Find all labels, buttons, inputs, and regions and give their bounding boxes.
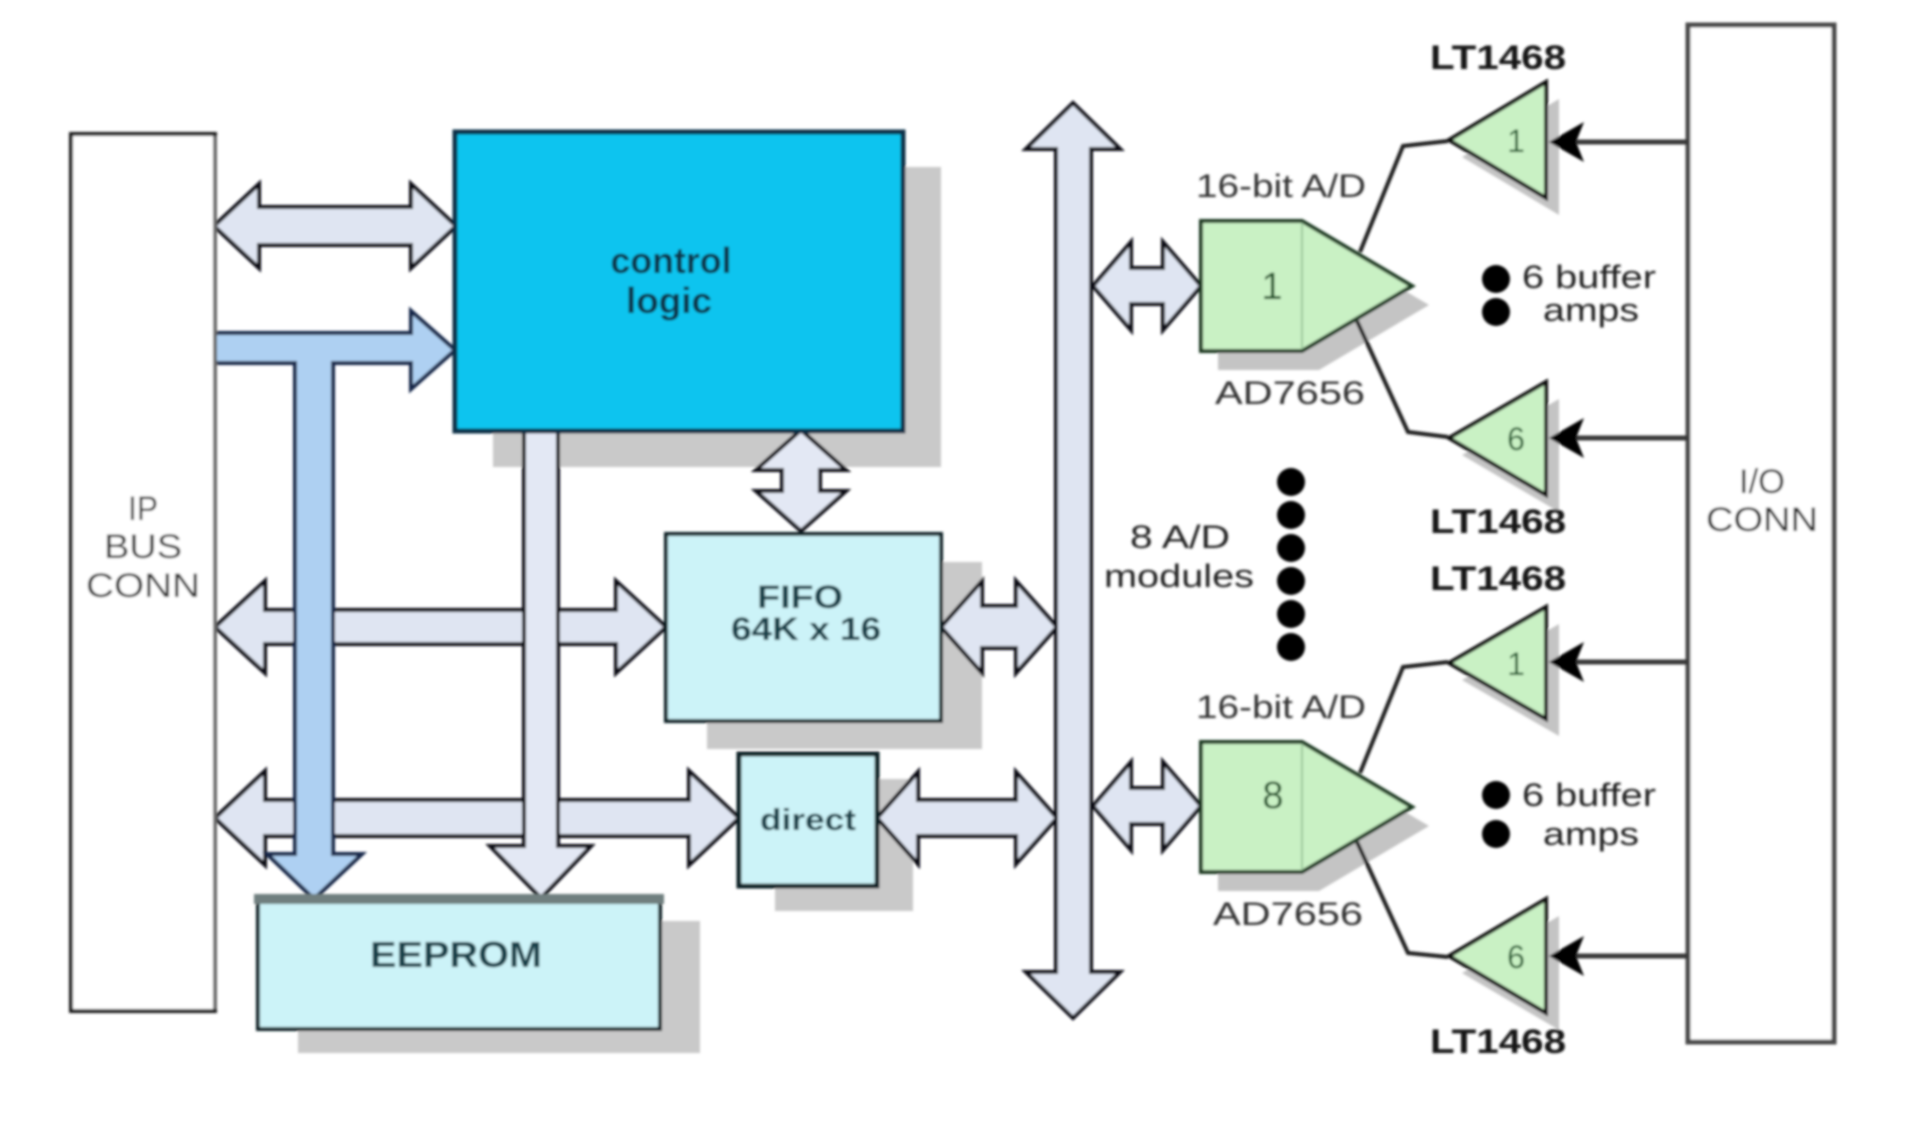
wire: I/O CONN input to buffer amp 6 bottom [1549,936,1688,976]
svg-text:CONN: CONN [86,567,200,605]
bus arrow: direct register to A/D data bus (bidirectional) [877,772,1057,864]
svg-text:LT1468: LT1468 [1430,39,1566,77]
svg-text:modules: modules [1104,558,1254,594]
shadow of buffer amp 1 (top) [1462,99,1559,215]
svg-text:LT1468: LT1468 [1430,503,1566,541]
svg-text:IP: IP [128,490,158,528]
svg-text:16-bit A/D: 16-bit A/D [1196,168,1366,204]
IP BUS CONN connector block [71,134,215,1011]
svg-text:8 A/D: 8 A/D [1130,519,1230,555]
shadow of FIFO block [707,562,982,749]
shadow of control logic block [493,167,941,467]
svg-text:AD7656: AD7656 [1213,896,1363,932]
svg-text:LT1468: LT1468 [1430,1023,1566,1061]
A/D module 1 (16-bit A/D, AD7656) [1201,221,1412,351]
svg-text:EEPROM: EEPROM [370,934,542,975]
A/D module 8 (16-bit A/D, AD7656) [1201,742,1412,872]
svg-text:BUS: BUS [104,528,182,566]
bus arrow: FIFO to A/D data bus (bidirectional) [941,581,1057,673]
shadow of A/D module 8 [1218,761,1429,891]
svg-text:8: 8 [1262,775,1283,817]
label 6 buffer amps (lower) with bullets [1482,777,1656,852]
FIFO 64K x 16 block [666,534,941,721]
buffer amp 6 (bottom, LT1468) [1449,899,1546,1013]
svg-text:6 buffer: 6 buffer [1522,259,1656,295]
svg-text:CONN: CONN [1706,501,1818,539]
buffer amp 1 (top, LT1468) [1449,82,1546,198]
svg-text:I/O: I/O [1739,463,1785,501]
bus arrow: IP bus to direct register (bidirectional) [215,771,739,865]
arrow: control logic down to EEPROM [490,431,591,898]
arrow: control logic to FIFO (bidirectional) [756,430,846,531]
svg-text:64K x 16: 64K x 16 [731,611,881,647]
wire: I/O CONN input to buffer amp 1 top [1549,122,1688,162]
wire: I/O CONN input to buffer amp 6 upper [1549,418,1688,458]
blue write bus: IP bus to control logic and down to EEPROM [215,311,455,899]
wire: A/D module 8 output to buffer amp 1 [1360,662,1448,773]
wire: A/D module 1 output to buffer amp 6 [1357,321,1448,437]
svg-text:6: 6 [1507,421,1525,457]
svg-text:6 buffer: 6 buffer [1522,777,1656,813]
buffer amp 6 (upper, LT1468) [1449,382,1546,495]
wire: A/D module 1 output to buffer amp 1 [1360,141,1448,252]
shadow of A/D module 1 [1218,240,1429,370]
svg-text:1: 1 [1507,123,1525,159]
svg-text:logic: logic [626,280,712,321]
wire: I/O CONN input to buffer amp 1 lower [1549,642,1688,682]
direct register block [739,754,877,886]
I/O CONN connector block [1688,25,1834,1042]
svg-text:1: 1 [1507,646,1525,682]
control logic block [455,132,903,431]
wire: A/D module 8 output to buffer amp 6 [1357,842,1448,957]
svg-text:direct: direct [760,802,856,837]
bus arrow: IP bus to control logic (bidirectional) [214,184,456,268]
svg-text:FIFO: FIFO [757,579,843,615]
shadow of buffer amp 1 (lower) [1462,624,1559,736]
svg-text:LT1468: LT1468 [1430,560,1566,598]
ellipsis dots: 8 A/D modules [1277,468,1305,661]
svg-text:AD7656: AD7656 [1215,375,1365,411]
svg-text:16-bit A/D: 16-bit A/D [1196,689,1366,725]
svg-text:control: control [611,240,732,281]
shadow of buffer amp 6 (bottom) [1462,916,1559,1030]
svg-text:amps: amps [1543,292,1639,328]
svg-text:6: 6 [1507,939,1525,975]
shadow of direct block [775,779,913,911]
svg-text:amps: amps [1543,816,1639,852]
A/D data bus (vertical double arrow) [1026,103,1120,1018]
arrow: A/D bus to A/D module 1 [1093,242,1201,330]
arrow: A/D bus to A/D module 8 [1093,762,1201,850]
shadow of buffer amp 6 (upper) [1462,399,1559,512]
bus arrow: IP bus to FIFO (bidirectional) [215,581,666,673]
label 6 buffer amps (upper) with bullets [1482,259,1656,328]
EEPROM block [258,898,660,1029]
svg-text:1: 1 [1261,266,1282,308]
shadow of EEPROM block [298,921,700,1053]
buffer amp 1 (lower, LT1468) [1449,607,1546,719]
label 8 A/D modules [1104,519,1254,594]
